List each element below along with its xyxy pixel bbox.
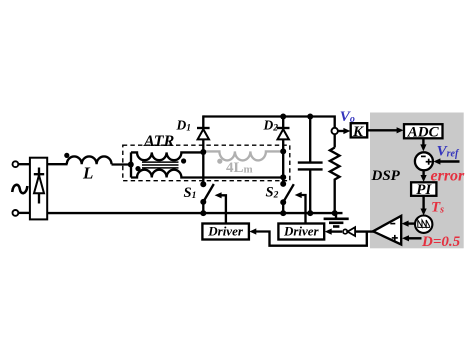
4Lm polarity dot xyxy=(217,159,222,164)
arrow D=0.5 to comparator plus input xyxy=(402,235,422,241)
switch S2 xyxy=(280,181,294,213)
driver 1 box xyxy=(202,224,249,240)
sawtooth carrier circle xyxy=(415,216,432,233)
node dot bottom winding at B xyxy=(280,174,286,180)
switch S1 xyxy=(200,181,214,213)
node dot capacitor top xyxy=(307,114,313,120)
arrow ADC to summer xyxy=(420,138,426,151)
driver 2 box xyxy=(278,224,324,240)
inductor L xyxy=(67,156,112,164)
svg-text:ATR: ATR xyxy=(143,133,175,150)
diode D2 xyxy=(277,115,290,184)
DSP block background xyxy=(370,113,464,249)
ADC box xyxy=(404,124,443,138)
rectifier diode xyxy=(34,168,44,204)
svg-text:D1: D1 xyxy=(176,117,192,133)
comparator output wire to driver1 (return loop) xyxy=(249,228,366,245)
wire source to rectifier bottom xyxy=(18,212,30,214)
load resistor xyxy=(330,148,340,214)
bottom rail xyxy=(47,212,342,214)
gate wire driver1 to S1 xyxy=(215,192,226,223)
wire Vo node to resistor xyxy=(334,134,336,147)
node A dot xyxy=(200,149,206,155)
ground xyxy=(324,213,349,226)
inverter to driver2 xyxy=(325,227,374,236)
arrow PI to carrier xyxy=(421,196,427,216)
Vo node circle xyxy=(332,128,338,134)
PI box xyxy=(411,182,436,196)
AC source terminal top xyxy=(13,161,19,167)
svg-text:Driver: Driver xyxy=(207,224,244,239)
svg-text:Driver: Driver xyxy=(283,224,320,239)
rectifier box xyxy=(30,158,47,220)
ATR dashed box xyxy=(123,145,290,181)
svg-text:4Lm: 4Lm xyxy=(226,160,253,176)
wire source to rectifier top xyxy=(18,163,30,165)
AC source terminal bottom xyxy=(13,210,19,216)
ATR left vertical wire xyxy=(130,152,132,177)
gain block K xyxy=(351,123,368,137)
Vref arrow xyxy=(433,158,459,164)
top rail D1 to output corner xyxy=(203,117,334,128)
svg-text:D2: D2 xyxy=(263,117,279,133)
AC sine symbol xyxy=(12,185,27,193)
summing junction xyxy=(415,152,433,170)
wire L to ATR xyxy=(112,163,132,165)
magnetizing inductance 4Lm (gray) xyxy=(203,151,283,160)
svg-text:S2: S2 xyxy=(266,185,279,201)
capacitor branch xyxy=(298,117,323,214)
polarity dot of L xyxy=(64,153,69,158)
node B dot (gray winding) xyxy=(280,148,286,154)
ATR top winding xyxy=(131,152,203,160)
gate wire driver2 to S2 xyxy=(295,192,306,224)
ATR core lines xyxy=(142,162,179,168)
svg-text:S1: S1 xyxy=(184,185,197,201)
node dot at ATR input xyxy=(128,162,134,168)
svg-text:DSP: DSP xyxy=(371,168,401,184)
svg-text:ADC: ADC xyxy=(407,124,440,140)
arrow summer to PI xyxy=(421,171,427,183)
node dot D2 top xyxy=(280,114,286,120)
arrow Vo to K xyxy=(338,128,351,134)
svg-text:PI: PI xyxy=(416,182,432,198)
diode D1 xyxy=(197,115,210,184)
wire rectifier to L xyxy=(47,163,67,165)
ATR top winding polarity dot xyxy=(181,158,186,163)
comparator xyxy=(373,216,401,245)
svg-text:L: L xyxy=(82,163,93,182)
svg-text:D=0.5: D=0.5 xyxy=(421,234,461,250)
svg-text:K: K xyxy=(352,124,364,140)
ATR bottom winding + wire to node B xyxy=(131,170,283,178)
arrow carrier to comparator minus input xyxy=(402,221,415,227)
arrow K to ADC xyxy=(367,127,403,133)
ATR bottom winding polarity dot xyxy=(135,166,140,171)
rail junction dots xyxy=(200,210,206,216)
